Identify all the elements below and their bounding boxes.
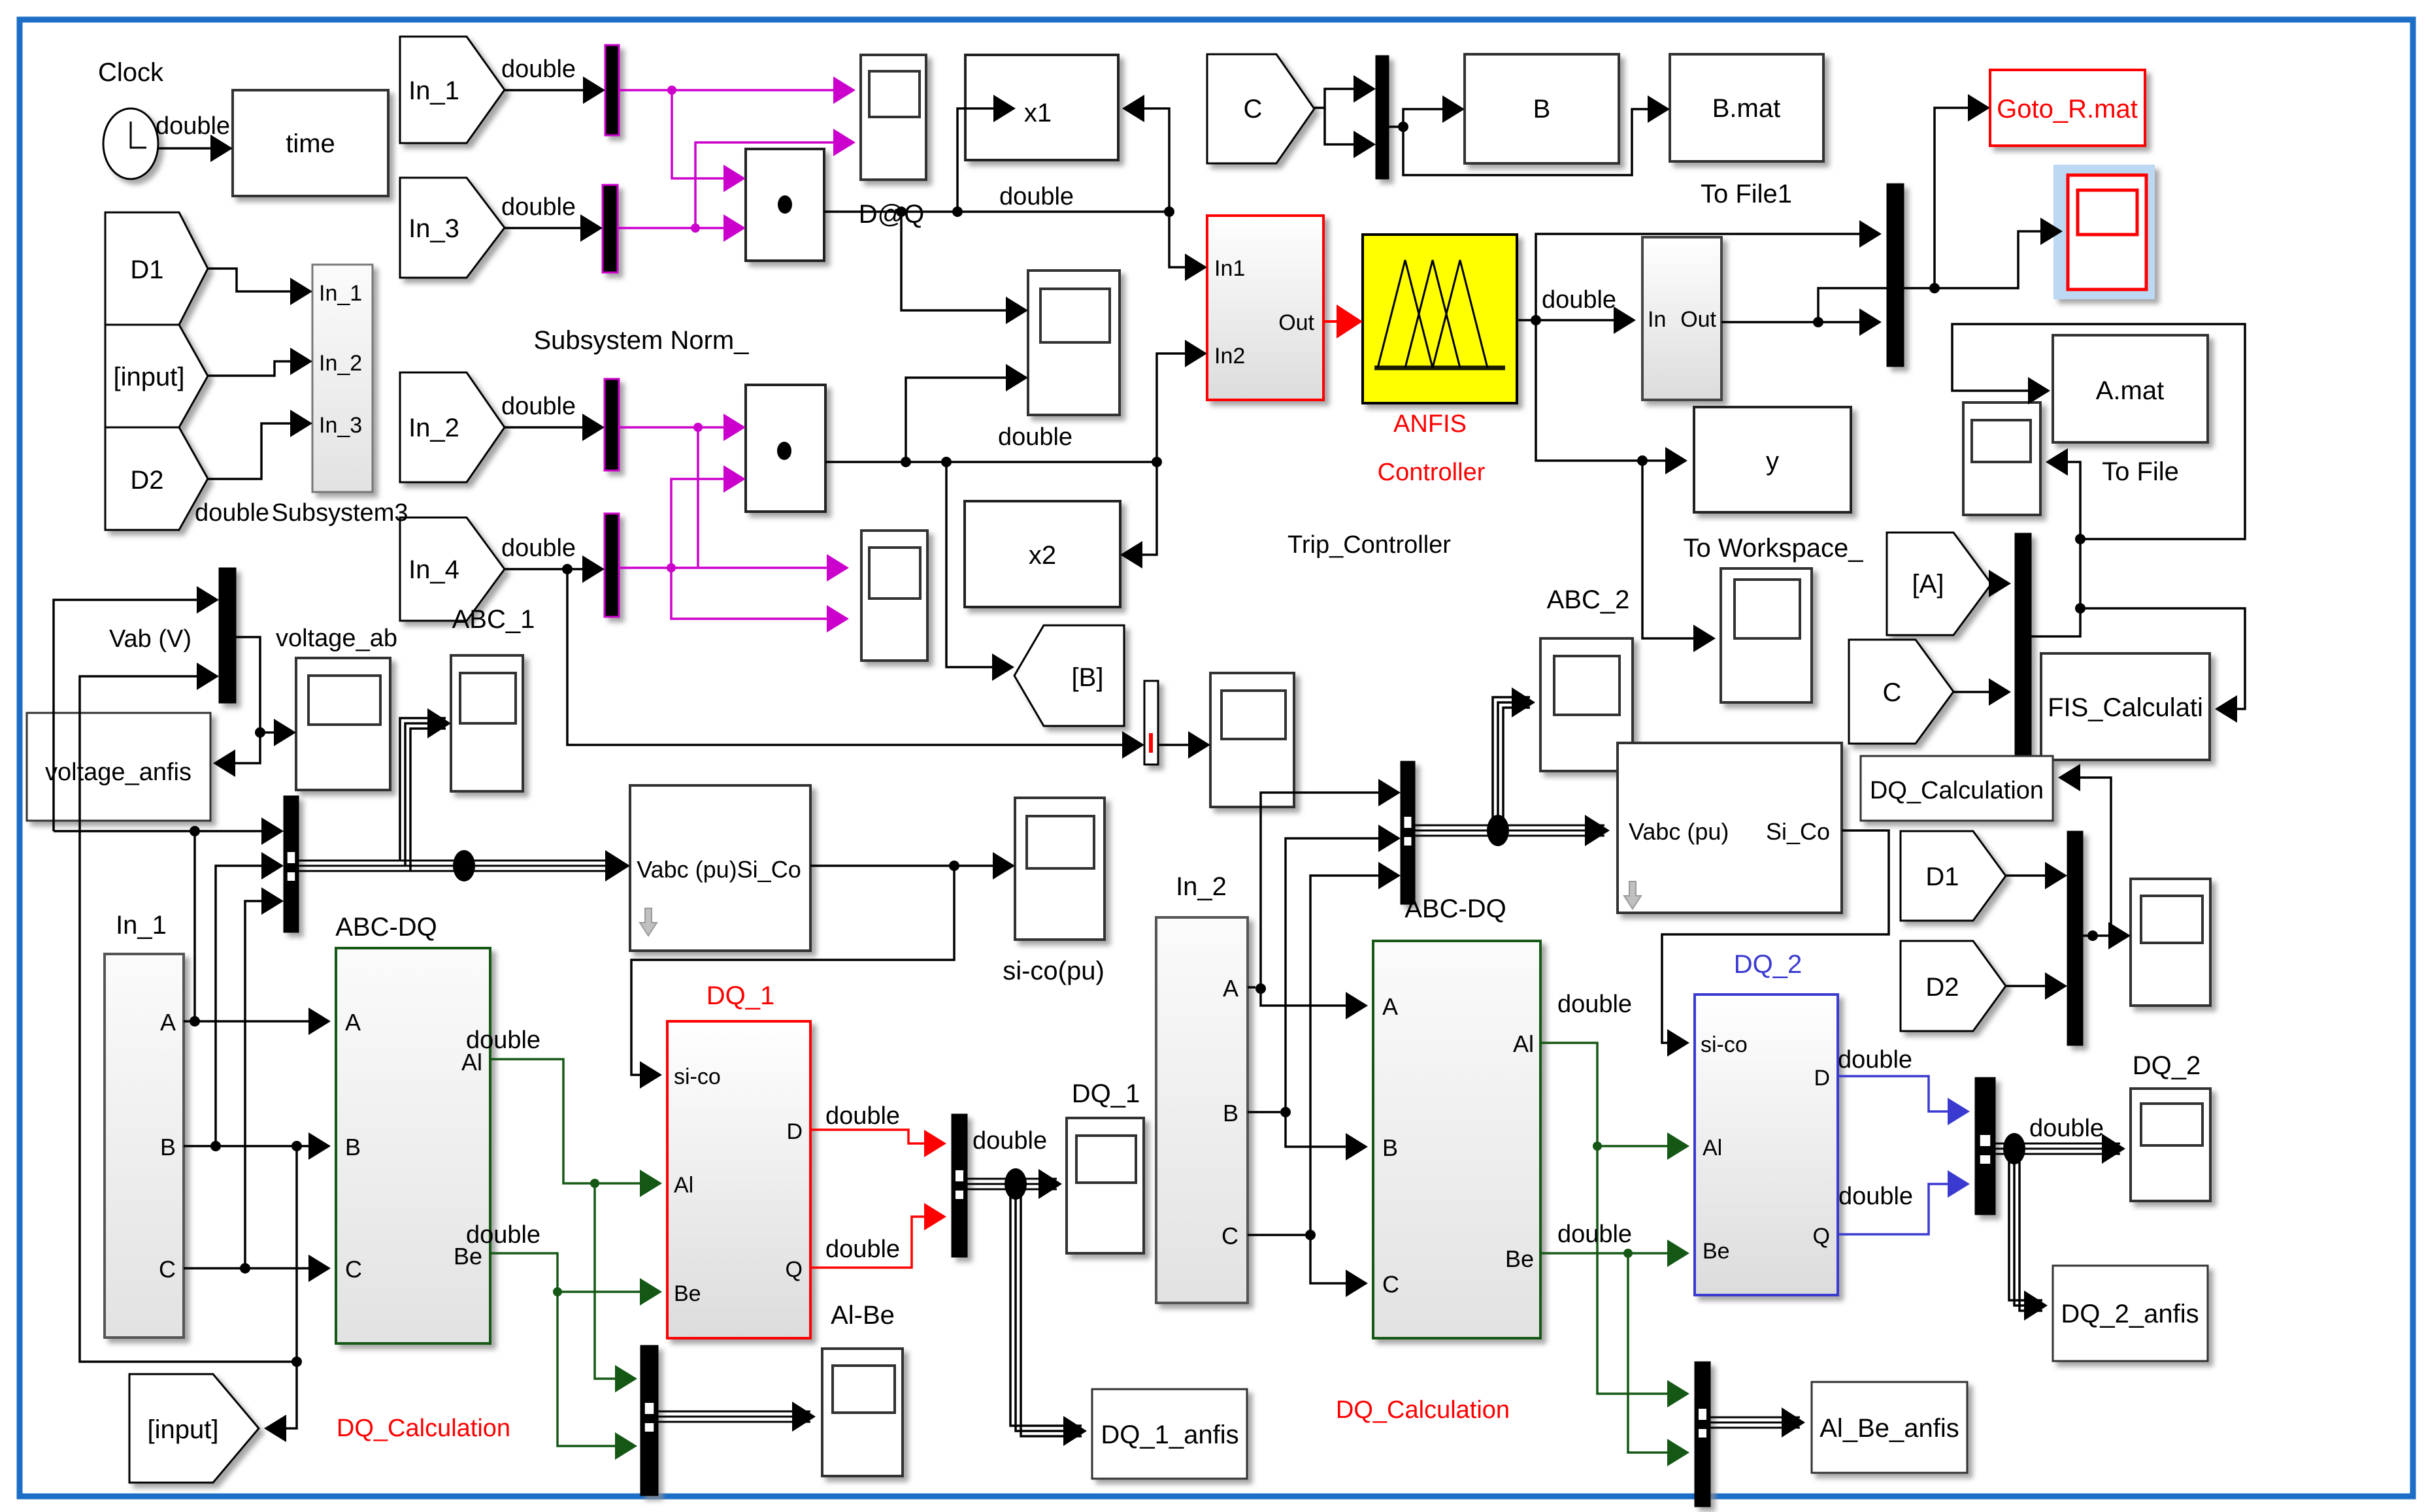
wire In_1.A net: to green ABC-DQ A, mux M8 in1, mux M7 in1 (184, 1020, 325, 1023)
mux M8 (demux, feeds Vabc1) (284, 796, 299, 932)
scope S5 (To Workspace_) (1721, 568, 1812, 702)
svg-text:Q: Q (786, 1257, 803, 1282)
svg-text:double: double (501, 393, 576, 420)
svg-text:DQ_1: DQ_1 (706, 981, 775, 1010)
junction In_4 output (562, 564, 573, 574)
svg-text:double: double (466, 1027, 540, 1054)
svg-text:Al-Be: Al-Be (831, 1301, 895, 1330)
svg-text:In_3: In_3 (319, 413, 362, 438)
svg-text:double: double (466, 1221, 540, 1249)
svg-text:DQ_1: DQ_1 (1072, 1079, 1140, 1108)
svg-text:In: In (1648, 307, 1666, 332)
svg-text:double: double (972, 1127, 1047, 1155)
subsystem ABC-DQ #2 (green) (1373, 941, 1540, 1338)
svg-text:Clock: Clock (98, 58, 164, 87)
goto block D1 (pentagon, right) (1901, 831, 2006, 921)
block B.mat (To File1) (1670, 54, 1823, 161)
wire In_4 junction down to rate transition block (567, 569, 1139, 745)
wire Vabc1 output to scope S9 and DQ_1 si-co (810, 864, 1010, 867)
wire rate transition to scope S4 (1158, 744, 1205, 746)
wire In_1.B net: to ABC-DQ B, mux M8 in2, mux M7 in2, goto [input] (184, 1145, 325, 1147)
wire branch bus up to scope S11 ABC_1 (400, 718, 446, 861)
svg-text:B: B (1533, 95, 1551, 123)
wire InOut output to mux M5 in2 (1721, 321, 1876, 323)
wire mux M5 output to red scope S7 and Goto_R.mat (1818, 231, 2057, 322)
svg-text:DQ_Calculation: DQ_Calculation (337, 1415, 510, 1442)
bus mux M11 output to scope S15 (vector) (1995, 1143, 2120, 1145)
svg-text:D2: D2 (130, 466, 163, 495)
svg-text:Out: Out (1680, 307, 1716, 332)
wire D1 to Subsystem3 In_1 (208, 269, 307, 291)
svg-text:A: A (1382, 993, 1398, 1020)
scope S1 (D@Q scope) (861, 55, 926, 180)
wire D2 right to mux M13 (2006, 985, 2062, 987)
svg-text:B.mat: B.mat (1712, 94, 1780, 123)
subsystem In_1 (tall) (105, 954, 184, 1338)
svg-text:C: C (345, 1256, 362, 1283)
svg-text:voltage_anfis: voltage_anfis (45, 759, 191, 786)
subsystem Subsystem3 (In_1 In_2 In_3) (312, 265, 373, 492)
red wire DQ_1 D output to mux M10 in1 (810, 1130, 941, 1143)
wire C2 pentagon to mux M6 (1953, 691, 2006, 693)
svg-text:In_2: In_2 (319, 351, 362, 376)
block FIS_Calculati (2041, 653, 2210, 760)
svg-text:Al: Al (1513, 1030, 1534, 1057)
wire net mux M6 output to scope S8, A.mat, FIS_Calculati (2031, 462, 2080, 636)
goto block D2 (pentagon, right) (1901, 941, 2006, 1031)
svg-text:Be: Be (1505, 1245, 1534, 1272)
svg-text:Si_Co: Si_Co (1766, 818, 1830, 845)
svg-text:Subsystem Norm_: Subsystem Norm_ (534, 326, 750, 355)
mux M1 (In_1, purple) (605, 45, 619, 135)
svg-text:double: double (501, 56, 576, 83)
svg-text:DQ_Calculation: DQ_Calculation (1870, 777, 2044, 804)
dot product block P2 (746, 385, 825, 512)
scope S9 (si-co(pu)) (1015, 798, 1105, 940)
goto block D1 (pentagon) (105, 212, 208, 325)
bus mux M10 output to scope S12 (vector) (967, 1178, 1057, 1180)
scope S14 (DQ_2 upper) (2131, 879, 2210, 1006)
from block [B] (pentagon pointing left) (1014, 625, 1124, 726)
svg-text:D1: D1 (130, 255, 163, 284)
mux M10 (DQ_1 outputs) (952, 1114, 967, 1257)
wire In_2.C net: to ABC-DQ2 C and mux M14 in3 (1248, 1234, 1305, 1236)
svg-text:A: A (160, 1009, 176, 1036)
svg-text:voltage_ab: voltage_ab (276, 625, 397, 652)
svg-text:Al: Al (674, 1173, 693, 1198)
wire D2 to Subsystem3 In_3 (208, 423, 307, 479)
svg-text:time: time (286, 129, 335, 158)
svg-text:double: double (1542, 286, 1616, 314)
wire In_2.A net: to ABC-DQ2 A and mux M14 in1 (1248, 986, 1255, 989)
svg-text:In2: In2 (1214, 344, 1245, 369)
goto block C (pentagon, top) (1207, 54, 1314, 163)
block x1 (965, 55, 1118, 160)
svg-text:In_4: In_4 (408, 555, 459, 584)
svg-text:double: double (501, 193, 576, 221)
svg-text:DQ_1_anfis: DQ_1_anfis (1101, 1421, 1238, 1449)
scope S10 (voltage_ab) (296, 658, 390, 790)
svg-text:D2: D2 (1925, 973, 1959, 1002)
svg-text:Trip_Controller: Trip_Controller (1288, 531, 1451, 559)
ANFIS controller block (yellow, membership functions) (1363, 235, 1517, 403)
mux M14 (demux, feeds Vabc2) (1401, 761, 1415, 904)
svg-text:To Workspace_: To Workspace_ (1684, 534, 1864, 563)
wire C pentagon to mux M15 (two inputs) (1314, 89, 1371, 108)
scope S2 (double scope middle) (1028, 271, 1120, 415)
svg-text:In_3: In_3 (408, 214, 459, 243)
from block [A] (pentagon) (1887, 533, 1991, 635)
svg-text:double: double (825, 1236, 900, 1263)
clock source block Clock (103, 108, 158, 179)
blue wire DQ_2 D output to mux M11 in1 (1838, 1076, 1965, 1111)
svg-text:DQ_2_anfis: DQ_2_anfis (2061, 1300, 2199, 1328)
block y (To Workspace) (1694, 407, 1851, 512)
wire net D@Q: product P1 output to x1 / Trip In1 / scope S2 (824, 210, 1169, 213)
svg-text:In_2: In_2 (408, 414, 459, 442)
svg-text:ABC_2: ABC_2 (1547, 585, 1630, 614)
svg-text:DQ_Calculation: DQ_Calculation (1336, 1396, 1510, 1424)
svg-text:C: C (1382, 1271, 1399, 1298)
dot product block P1 (746, 149, 824, 261)
scope S4 (right of rate transition) (1210, 673, 1294, 807)
mux M9 (Al-Be) (640, 1345, 658, 1496)
purple net mux M3 output to product P2 in1 and scope S3 in1 (619, 426, 740, 429)
wire ANFIS output net to InOut, mux M5 in1, y block, scope S5 (1517, 319, 1631, 321)
green wire ABC-DQ1 Al to DQ_1 Al and mux M9 in1 (490, 1059, 657, 1183)
goto block D2 (pentagon) (105, 427, 208, 530)
goto block Goto_R.mat (red) (1990, 70, 2145, 146)
scope S13 (Al-Be) (822, 1349, 903, 1476)
svg-text:D: D (786, 1119, 803, 1144)
svg-text:double: double (1838, 1046, 1912, 1074)
svg-text:Controller: Controller (1378, 459, 1486, 486)
svg-text:C: C (1883, 678, 1902, 707)
goto block In_3 (pentagon) (400, 178, 505, 278)
goto block In_2 (pentagon) (400, 372, 505, 482)
svg-text:si-co(pu): si-co(pu) (1003, 957, 1105, 985)
green wire ABC-DQ1 Be to DQ_1 Be and mux M9 in2 (490, 1253, 657, 1292)
wire net product P2 output to scope S2 in2 / goto [B] / x2 / Trip In2 (825, 461, 1157, 463)
wire In_1 to mux M1 (505, 89, 600, 91)
svg-text:Q: Q (1813, 1224, 1830, 1249)
svg-text:[A]: [A] (1912, 570, 1944, 599)
svg-text:FIS_Calculati: FIS_Calculati (2048, 693, 2203, 722)
wire branch to DQ_Calculation block input (2061, 778, 2111, 936)
svg-text:DQ_2: DQ_2 (1734, 950, 1803, 979)
wire mux M15 output to B and B.mat (1389, 125, 1403, 128)
subsystem DQ_2 (blue) (1695, 994, 1838, 1295)
wire In_2 pentagon to mux M3 (505, 426, 599, 429)
green wire ABC-DQ2 Al to DQ_2 Al and mux M12 in1 (1540, 1043, 1684, 1146)
svg-text:D@Q: D@Q (859, 200, 925, 229)
scope S3 (lower purple scope) (861, 531, 927, 661)
mux M6 (right column) (2015, 533, 2031, 774)
subsystem InOut (1642, 237, 1721, 400)
junction big dot on Vabc1 bus (453, 850, 475, 881)
svg-text:In1: In1 (1214, 256, 1245, 281)
purple net mux M1 output to scope S1 in1 and product P1 in1 (619, 89, 850, 91)
svg-text:double: double (156, 112, 230, 140)
wire Clock to time (158, 147, 227, 150)
subsystem DQ_1 (red) (667, 1021, 810, 1338)
svg-text:double: double (501, 534, 576, 562)
svg-text:double: double (1557, 1221, 1632, 1248)
mux M15 (top, after C) (1376, 56, 1389, 179)
wire [A] to mux M6 (1991, 582, 2006, 585)
svg-text:double: double (825, 1102, 900, 1130)
wire In_3 to mux M2 (505, 227, 597, 229)
svg-text:Out: Out (1278, 310, 1314, 335)
subsystem Trip_Controller (red) (1207, 216, 1323, 400)
svg-text:C: C (1221, 1223, 1238, 1249)
svg-text:D: D (1814, 1066, 1830, 1091)
svg-text:Vabc (pu)Si_Co: Vabc (pu)Si_Co (637, 856, 801, 883)
svg-text:DQ_2: DQ_2 (2133, 1051, 2201, 1080)
svg-text:y: y (1766, 447, 1779, 476)
svg-text:D1: D1 (1925, 863, 1959, 891)
svg-text:To File1: To File1 (1701, 180, 1792, 208)
svg-text:Vabc (pu): Vabc (pu) (1629, 818, 1729, 845)
bus mux M9 output to scope S13 Al-Be (vector) (658, 1411, 810, 1413)
svg-text:x1: x1 (1024, 99, 1052, 127)
svg-text:x2: x2 (1029, 541, 1056, 570)
goto block In_4 (pentagon) (400, 518, 505, 621)
svg-text:In_2: In_2 (1176, 872, 1227, 901)
svg-text:Al: Al (1703, 1136, 1722, 1160)
goto block [input] (pentagon, bottom, flipped) (129, 1374, 259, 1483)
block DQ_Calculation (upper right) (1861, 756, 2053, 821)
goto block In_1 (pentagon) (400, 37, 505, 143)
svg-text:A: A (345, 1009, 361, 1036)
rate transition block (thin, red mark) (1144, 681, 1158, 764)
block voltage_anfis (27, 713, 210, 821)
block A.mat (To File) (2053, 335, 2208, 442)
wire In_1.C net: to ABC-DQ C and mux M8 in3 (184, 1267, 325, 1270)
svg-text:ANFIS: ANFIS (1393, 410, 1467, 438)
svg-text:B: B (1382, 1134, 1398, 1161)
svg-text:double: double (998, 423, 1072, 451)
svg-text:[B]: [B] (1072, 663, 1104, 692)
block x2 (965, 501, 1120, 607)
goto block [input] (pentagon, top-left) (105, 325, 208, 427)
wire Trip_Controller Out to ANFIS (red) (1323, 320, 1357, 323)
svg-text:[input]: [input] (148, 1415, 219, 1444)
scope S6 (ABC_2) (1540, 638, 1633, 771)
subsystem In_2 (tall) (1156, 917, 1248, 1303)
svg-text:C: C (1244, 95, 1263, 123)
purple net mux M4 output to scope S3 in1/in2 and product P2 in2 (619, 567, 844, 569)
green wire ABC-DQ2 Be to DQ_2 Be and mux M12 in2 (1540, 1252, 1684, 1255)
svg-text:In_1: In_1 (408, 76, 459, 105)
svg-text:In_1: In_1 (116, 911, 167, 940)
svg-text:si-co: si-co (674, 1064, 721, 1089)
svg-text:si-co: si-co (1701, 1032, 1748, 1057)
svg-text:Al_Be_anfis: Al_Be_anfis (1820, 1414, 1959, 1443)
wire D1 right to mux M13 (2006, 874, 2062, 877)
mux M13 (D1 D2) (2067, 831, 2083, 1045)
svg-text:Be: Be (674, 1281, 701, 1306)
subsystem ABC-DQ #1 (green) (336, 948, 490, 1343)
bus branch down to DQ_2_anfis (2009, 1149, 2042, 1300)
svg-text:In_1: In_1 (319, 281, 362, 306)
svg-text:C: C (159, 1256, 176, 1283)
svg-text:B: B (160, 1134, 176, 1160)
svg-text:Goto_R.mat: Goto_R.mat (1997, 95, 2138, 123)
bus mux M12 output to Al_Be_anfis (vector) (1710, 1417, 1800, 1419)
svg-text:Vab (V): Vab (V) (109, 625, 191, 653)
mux M11 (DQ_2 outputs) (1975, 1077, 1995, 1215)
svg-text:Subsystem3: Subsystem3 (271, 499, 408, 527)
svg-text:double: double (2029, 1115, 2104, 1142)
svg-text:Be: Be (1703, 1239, 1730, 1264)
wire Vabc2 Si_Co output to DQ_2 si-co (1662, 830, 1889, 1043)
svg-text:double: double (195, 499, 269, 527)
scope S12 (DQ_1) (1067, 1118, 1144, 1253)
wire mux M13 output to scope S14 (2083, 934, 2125, 937)
wire [input] to Subsystem3 In_2 (208, 361, 307, 376)
svg-text:A: A (1223, 975, 1238, 1002)
scope S15 (DQ_2 lower) (2131, 1089, 2210, 1201)
wire arrow inside x1 (965, 107, 993, 110)
block DQ_1_anfis (1092, 1389, 1247, 1479)
mux M2 (In_3, purple) (603, 185, 618, 272)
svg-text:To File: To File (2102, 457, 2179, 486)
svg-text:B: B (1223, 1100, 1238, 1126)
purple net mux M2 output to product P1 in2 and scope S1 in2 (618, 227, 740, 229)
svg-text:ABC-DQ: ABC-DQ (1404, 895, 1506, 923)
scope S7 (red, selected with blue halo) (2053, 165, 2155, 299)
blue wire DQ_2 Q output to mux M11 in2 (1838, 1184, 1965, 1234)
block Al_Be_anfis (1812, 1382, 1967, 1473)
subsystem Vabc (pu) Si_Co #1 (630, 785, 810, 951)
mux M5 (right of InOut) (1887, 184, 1904, 367)
wire In_2.B net: to ABC-DQ2 B and mux M14 in2 (1248, 1111, 1280, 1113)
mux M7 (Vab (V)) (219, 568, 236, 703)
svg-text:double: double (1838, 1183, 1913, 1210)
bus mux M14 output to Vabc2 (vector) (1415, 825, 1604, 827)
scope S11 (ABC_1) (451, 655, 523, 791)
mux M3 (In_2, purple) (605, 379, 619, 470)
svg-text:B: B (345, 1134, 361, 1160)
mux M4 (In_4, purple) (605, 514, 619, 617)
block DQ_2_anfis (2053, 1266, 2208, 1361)
svg-text:[input]: [input] (114, 363, 185, 391)
wire In_4 to mux M4 (505, 568, 599, 570)
wire mux M8 bus to Vabc1 (vector) (298, 860, 620, 862)
svg-text:double: double (999, 183, 1074, 210)
subsystem Vabc (pu) Si_Co #2 (1618, 743, 1842, 913)
svg-text:double: double (1557, 991, 1632, 1018)
mux M12 (Al Be anfis) (1695, 1362, 1710, 1507)
wire mux M7 output to voltage_ab scope and voltage_anfis (216, 637, 260, 763)
red wire DQ_1 Q output to mux M10 in2 (810, 1217, 941, 1268)
bus branch down to DQ_1_anfis (1010, 1184, 1082, 1426)
svg-text:ABC_1: ABC_1 (452, 605, 535, 634)
bus branch up to scope S6 ABC_2 (1493, 697, 1530, 830)
svg-text:ABC-DQ: ABC-DQ (335, 913, 437, 942)
scope S8 (flipped, left of To File) (1963, 403, 2040, 515)
block B (1465, 54, 1619, 163)
goto block C2 (pentagon, lower) (1849, 640, 1953, 744)
svg-text:A.mat: A.mat (2096, 376, 2164, 405)
block time (233, 90, 388, 196)
